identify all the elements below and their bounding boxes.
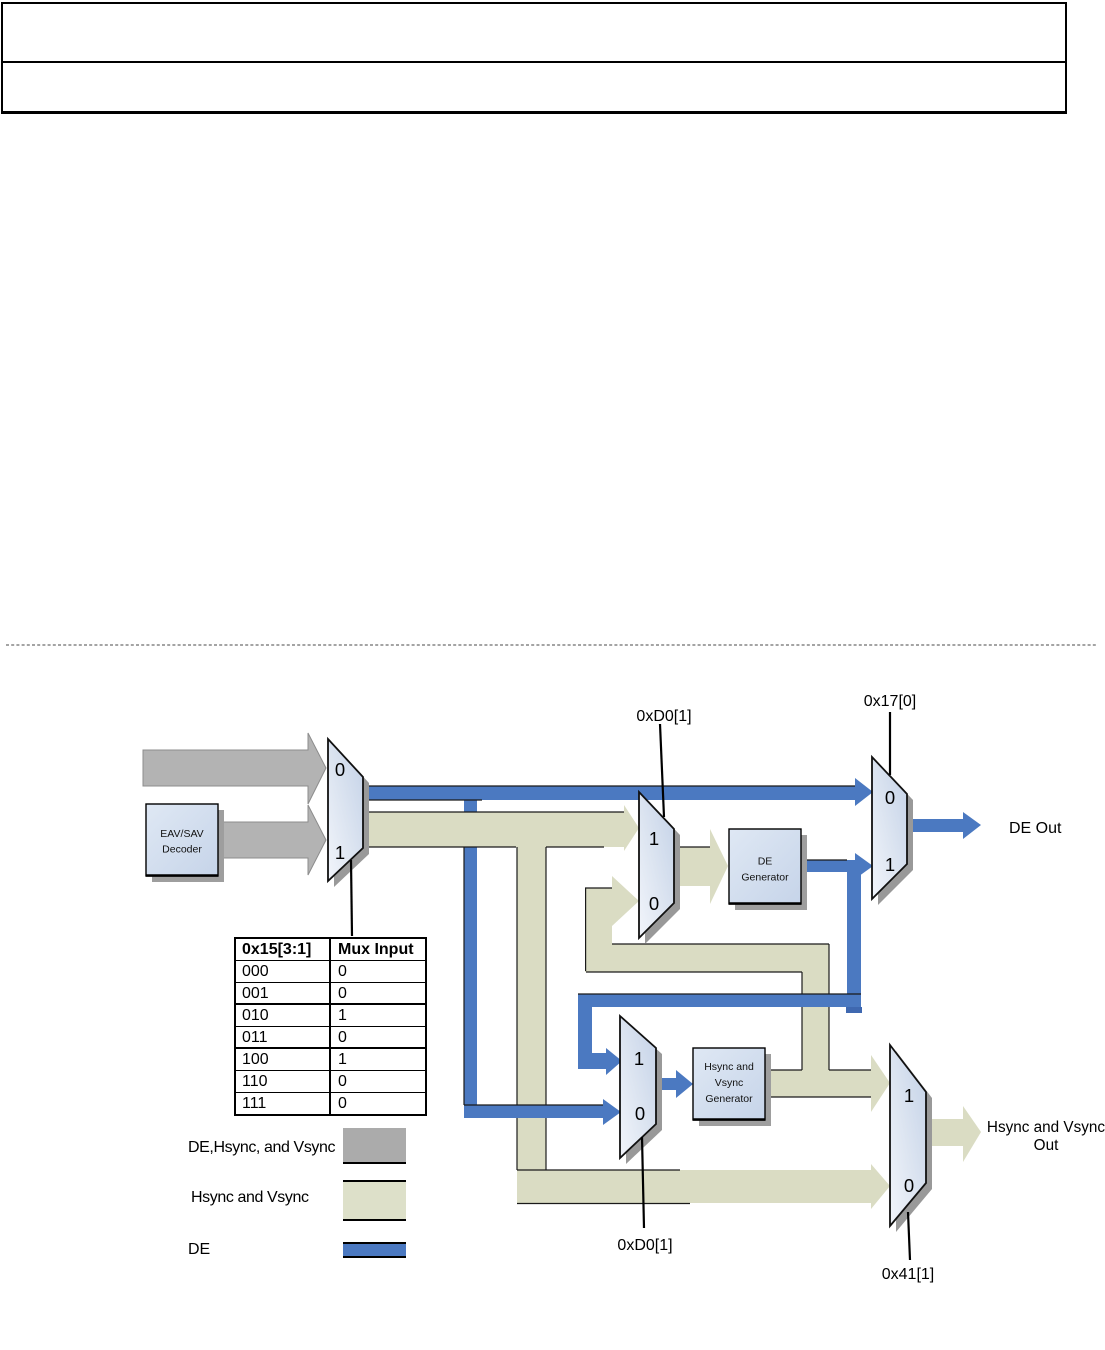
svg-text:1: 1 [885, 854, 895, 875]
svg-text:1: 1 [335, 842, 345, 863]
svg-text:0xD0[1]: 0xD0[1] [617, 1237, 672, 1254]
svg-text:0xD0[1]: 0xD0[1] [636, 708, 691, 725]
svg-text:Generator: Generator [705, 1093, 753, 1105]
svg-text:1: 1 [649, 828, 659, 849]
svg-text:0: 0 [904, 1175, 914, 1196]
svg-text:1: 1 [634, 1048, 644, 1069]
svg-text:0x41[1]: 0x41[1] [882, 1266, 934, 1283]
svg-text:Out: Out [1034, 1137, 1059, 1154]
svg-text:Hsync and: Hsync and [704, 1061, 754, 1073]
svg-text:0: 0 [649, 893, 659, 914]
svg-text:DE: DE [758, 856, 773, 868]
svg-text:0x17[0]: 0x17[0] [864, 693, 916, 710]
svg-text:DE Out: DE Out [1009, 820, 1062, 837]
svg-text:0: 0 [885, 787, 895, 808]
svg-text:Generator: Generator [741, 872, 789, 884]
svg-text:0: 0 [335, 759, 345, 780]
svg-text:Vsync: Vsync [715, 1077, 744, 1089]
svg-text:Hsync and Vsync: Hsync and Vsync [987, 1119, 1105, 1136]
svg-text:1: 1 [904, 1085, 914, 1106]
svg-text:Decoder: Decoder [162, 844, 202, 856]
svg-text:0: 0 [635, 1103, 645, 1124]
svg-text:EAV/SAV: EAV/SAV [160, 828, 203, 840]
